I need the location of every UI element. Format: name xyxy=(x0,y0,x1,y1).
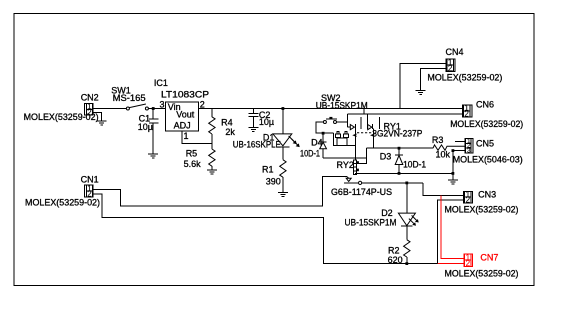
resistor R4 2k xyxy=(209,117,236,144)
relay RY1 contact 2 xyxy=(368,114,380,148)
relay coil RY1 3G2VN-237P xyxy=(336,121,423,145)
wire D4 bottom xyxy=(323,157,367,159)
svg-text:CN5: CN5 xyxy=(476,139,494,149)
capacitor C2 10u xyxy=(248,109,274,128)
wire rail link xyxy=(363,109,365,114)
resistor R3 10k xyxy=(432,135,465,160)
wire rail2 to CN6 pin2 xyxy=(347,113,462,115)
svg-text:MOLEX(53259-02): MOLEX(53259-02) xyxy=(25,198,100,208)
ground at R1 xyxy=(278,193,288,197)
wire red CN7 pin1 xyxy=(441,196,464,259)
border frame xyxy=(14,14,534,286)
diode D4 10D-1 xyxy=(300,133,327,159)
ground at CN2 xyxy=(97,121,107,125)
svg-text:IC1: IC1 xyxy=(154,78,168,88)
wire CN1 pin1 (net A) xyxy=(93,177,347,207)
svg-text:1: 1 xyxy=(184,131,189,141)
svg-text:D4: D4 xyxy=(311,138,323,148)
svg-text:UB-15SKP1M: UB-15SKP1M xyxy=(345,218,397,228)
ground at CN5 net xyxy=(448,180,458,184)
svg-text:MOLEX(53259-02): MOLEX(53259-02) xyxy=(24,112,99,122)
svg-text:UB-16SKPLE: UB-16SKPLE xyxy=(233,140,281,150)
op-amp U1 regulator IC1 LT1083CP xyxy=(154,78,209,141)
wire contact to CN3 pin1 xyxy=(423,183,464,196)
svg-text:CN3: CN3 xyxy=(478,190,496,200)
svg-text:RY2: RY2 xyxy=(337,160,354,170)
wire CN2 pin2 to ground xyxy=(93,113,101,122)
svg-text:R1: R1 xyxy=(262,165,274,175)
svg-text:CN4: CN4 xyxy=(446,47,464,57)
svg-text:2: 2 xyxy=(464,110,469,119)
wire RY1 coil right xyxy=(347,144,355,146)
wire CN3 pin2 down xyxy=(438,200,464,264)
diode D3 10D-1 xyxy=(380,148,426,173)
wire IC1 pin1 ADJ xyxy=(182,131,212,144)
svg-text:CN2: CN2 xyxy=(81,92,99,102)
svg-text:MOLEX(53259-02): MOLEX(53259-02) xyxy=(445,205,519,215)
svg-text:R4: R4 xyxy=(221,117,233,127)
switch SW2 UB-15SKP1M pushbutton xyxy=(316,93,368,123)
wire CN1 pin2 (net B) xyxy=(93,194,438,264)
wire CN2 pin1 to SW1 xyxy=(93,108,126,110)
svg-text:2: 2 xyxy=(466,259,471,268)
LED D1 UB-16SKPLE xyxy=(233,109,300,160)
svg-text:D3: D3 xyxy=(380,151,392,161)
svg-text:Vout: Vout xyxy=(176,110,195,120)
resistor R2 620 xyxy=(388,226,410,265)
svg-text:3: 3 xyxy=(467,148,471,155)
svg-text:10D-1: 10D-1 xyxy=(300,149,320,159)
connector CN1 xyxy=(25,175,100,208)
relay coil RY2 xyxy=(337,160,359,175)
wire SW2 left terminal xyxy=(316,122,333,133)
relay RY2 contact fixed line xyxy=(331,181,423,197)
svg-text:CN7: CN7 xyxy=(480,253,498,263)
wire CN5 pin1 stub xyxy=(455,141,465,143)
ground at R5 xyxy=(207,170,217,174)
svg-text:3: 3 xyxy=(160,100,165,110)
svg-text:MOLEX(53259-02): MOLEX(53259-02) xyxy=(450,119,523,129)
relay RY1 contact 1 xyxy=(347,117,361,160)
svg-text:3G2VN-237P: 3G2VN-237P xyxy=(372,129,422,139)
wire SW2 right terminal xyxy=(337,121,348,123)
junction contact D2 xyxy=(405,182,408,185)
wire CN5 pin3 xyxy=(453,151,465,174)
wire CN4 pin2 to ground xyxy=(421,69,447,91)
svg-text:MOLEX(53259-02): MOLEX(53259-02) xyxy=(445,268,519,278)
svg-text:LT1083CP: LT1083CP xyxy=(161,90,209,100)
wire ground net xyxy=(355,172,453,174)
junction CN5 pin3 xyxy=(452,149,455,152)
connector CN7 (red) xyxy=(445,253,519,279)
wire SW1 to IC1 pin3 xyxy=(148,108,165,110)
connector CN3 xyxy=(445,190,519,215)
wire contact2 to R3 net xyxy=(367,147,433,149)
svg-text:10µ: 10µ xyxy=(259,117,274,127)
wire CN4 pin1 to rail xyxy=(400,64,446,109)
wire to ground right xyxy=(452,173,454,180)
junction D3 top xyxy=(398,147,401,150)
resistor R1 390 xyxy=(262,160,286,193)
connector CN5 MOLEX(5046-03) xyxy=(453,138,523,165)
junction D3 bottom xyxy=(398,172,401,175)
ground at C1 xyxy=(148,154,158,158)
mechanical link dashed xyxy=(354,133,375,137)
ground at C2 xyxy=(248,128,258,132)
svg-text:2k: 2k xyxy=(225,127,235,137)
svg-text:MS-165: MS-165 xyxy=(113,93,146,103)
svg-text:CN1: CN1 xyxy=(81,175,99,185)
switch SW1 MS-165 xyxy=(111,85,148,110)
svg-text:CN6: CN6 xyxy=(476,99,494,109)
svg-text:G6B-1174P-US: G6B-1174P-US xyxy=(331,187,392,197)
wire red CN7 pin2 xyxy=(438,263,464,265)
svg-text:ADJ: ADJ xyxy=(174,121,191,131)
svg-text:R3: R3 xyxy=(432,135,444,145)
wire SW2 vertical xyxy=(346,114,348,127)
svg-text:10D-1: 10D-1 xyxy=(403,159,426,169)
connector CN2 xyxy=(24,92,99,122)
wire R4 top xyxy=(211,109,213,117)
connector CN4 xyxy=(427,47,502,82)
svg-text:R5: R5 xyxy=(186,149,198,159)
junction R2 bottom xyxy=(405,262,408,265)
resistor R5 5.6k xyxy=(184,144,216,170)
junction SW2/D4 xyxy=(322,132,325,135)
ground at CN4 xyxy=(416,90,426,94)
svg-text:MOLEX(53259-02): MOLEX(53259-02) xyxy=(427,72,502,82)
svg-text:10µ: 10µ xyxy=(138,122,153,132)
svg-text:D2: D2 xyxy=(381,208,393,218)
capacitor C1 xyxy=(138,109,159,154)
connector CN6 xyxy=(450,99,523,129)
junction rail D1 xyxy=(282,107,285,110)
svg-text:2: 2 xyxy=(466,196,471,205)
svg-text:5.6k: 5.6k xyxy=(184,159,202,169)
svg-text:MOLEX(5046-03): MOLEX(5046-03) xyxy=(453,155,523,165)
relay RY2 contact G6B-1174P-US moving arm xyxy=(346,177,351,182)
svg-text:10k: 10k xyxy=(436,150,451,160)
LED D2 UB-15SKP1M xyxy=(345,183,419,228)
svg-text:620: 620 xyxy=(388,255,403,265)
svg-text:390: 390 xyxy=(266,177,281,187)
junction at C1 xyxy=(152,107,155,110)
junction CN5 pin3 drop xyxy=(452,172,455,175)
svg-text:UB-15SKP1M: UB-15SKP1M xyxy=(316,100,368,110)
wire link to RY2 top xyxy=(357,148,367,163)
wire main rail Vout xyxy=(199,108,463,110)
wire RY1 coil left xyxy=(333,133,337,145)
